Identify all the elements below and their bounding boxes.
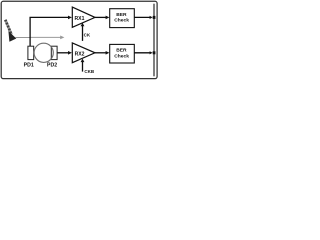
- svg-text:Check: Check: [114, 18, 129, 24]
- svg-text:RX1: RX1: [75, 16, 85, 22]
- svg-text:PD2: PD2: [47, 62, 57, 68]
- svg-text:CK: CK: [84, 33, 91, 38]
- svg-text:Check: Check: [114, 53, 129, 59]
- svg-text:BER: BER: [116, 48, 127, 54]
- svg-text:BER: BER: [116, 12, 127, 18]
- svg-text:PD1: PD1: [24, 62, 34, 68]
- svg-text:CKB: CKB: [84, 69, 94, 74]
- svg-text:RX2: RX2: [75, 52, 85, 58]
